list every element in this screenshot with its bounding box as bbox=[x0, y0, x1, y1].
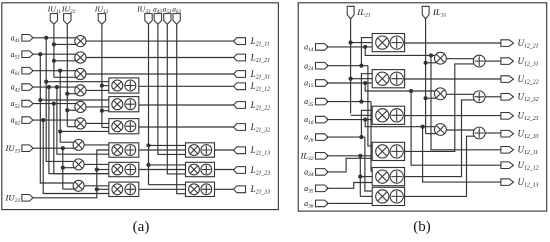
adder in right PE box row8 bbox=[201, 164, 212, 175]
right PE box row7 (multiply-add) bbox=[186, 143, 215, 157]
input port a25 (left, panel b) bbox=[316, 98, 329, 105]
wire multiplier to adder row U12_31 bbox=[446, 58, 474, 60]
input port a15 (left, panel b) bbox=[316, 80, 329, 87]
wire IL32 bend into PE box6 bbox=[360, 195, 372, 197]
wire IU12 bend into row6 PE box bbox=[102, 127, 109, 129]
output port L21_13 (panel a) bbox=[234, 147, 246, 154]
input port a16 (left, panel b) bbox=[316, 116, 329, 123]
output port U12_11 (panel b) bbox=[501, 147, 514, 154]
multiplier in right PE box row7 bbox=[189, 145, 200, 156]
output port U12_33 (panel b) bbox=[501, 130, 514, 137]
junction aux row4 bbox=[47, 85, 51, 89]
junction a51 row5 branch bbox=[38, 98, 42, 102]
wire row8 right PE box output to port L21_23 bbox=[215, 169, 234, 171]
input port IL32 (left, panel b) bbox=[316, 153, 329, 160]
net IU11 vertical wire bbox=[53, 24, 55, 77]
adder in PE box6 bbox=[390, 190, 403, 203]
junction IU12-row4 bbox=[100, 84, 104, 88]
PE box row6 (multiply-add) bbox=[109, 119, 139, 134]
wire IL31 branch to multiplier row U12_32 bbox=[426, 97, 436, 99]
input port a26 (left, panel b) bbox=[316, 134, 329, 141]
wire IU33 bend into row9 right PE box bbox=[149, 184, 186, 186]
wire row9 left PE box output into right PE box bbox=[139, 188, 186, 190]
wire IL31 bend to multiplier row U12_33 bbox=[426, 133, 436, 135]
wire a51 branch into row5 PE box bbox=[40, 99, 109, 101]
wire IU22 branch to row4 multiplier bbox=[67, 93, 76, 95]
input port a53 (top, panel a) bbox=[164, 14, 171, 25]
wire a24 riser down into PE box4 top bbox=[368, 66, 372, 146]
junction a14 tap for U12_11 bbox=[429, 53, 433, 57]
adder in PE box1 bbox=[390, 36, 403, 49]
net a42 vertical wire to row7 PE box bbox=[57, 87, 109, 154]
wire IL32 branch into PE box5 bbox=[360, 176, 372, 178]
junction a25 riser bbox=[359, 100, 363, 104]
wire IU22 bend into row6 multiplier bbox=[67, 126, 76, 128]
multiplier (single) row U12_32 bbox=[435, 88, 447, 100]
junction a51 row2 bbox=[38, 52, 42, 56]
output port U12_32 (panel b) bbox=[501, 94, 514, 101]
output port L21_11 (panel a) bbox=[234, 38, 246, 45]
left PE box row7 (multiply-add) bbox=[109, 143, 139, 157]
wire IU12 branch into row5 PE box bbox=[102, 110, 109, 112]
junction IL21-box1 bbox=[349, 41, 353, 45]
junction IL21-box2 bbox=[349, 77, 353, 81]
right PE box row9 (multiply-add) bbox=[186, 182, 215, 196]
junction a61 row3 bbox=[58, 69, 62, 73]
input port IU22 (top, panel a) bbox=[64, 14, 71, 25]
wire IU33 branch into row7 right PE box bbox=[149, 144, 186, 146]
output port U12_23 (panel b) bbox=[501, 113, 514, 120]
left PE box row9 (multiply-add) bbox=[109, 182, 139, 196]
net IU33 vertical wire bbox=[148, 24, 150, 185]
junction a16 tap for U12_13 bbox=[421, 125, 425, 129]
multiplier in left PE box row7 bbox=[112, 145, 123, 156]
wire row8 multiplier output into left PE box bbox=[84, 163, 109, 165]
net IL32 wire into PE box4 bbox=[327, 155, 373, 157]
net IU13 vertical branch to rows 8-9 bbox=[62, 148, 64, 189]
wire row a61 from port to multiplier bbox=[33, 70, 77, 72]
junction IL32 riser bbox=[358, 154, 362, 158]
adder in PE box row5 bbox=[125, 99, 136, 110]
PE box row5 (multiply-add) bbox=[109, 97, 139, 112]
wire IL21 branch into PE box1 bbox=[351, 42, 373, 44]
net a62 vertical wire to row9 PE box bbox=[43, 120, 109, 193]
input port a36 (left, panel b) bbox=[316, 200, 329, 207]
input port IU33 (top, panel a) bbox=[145, 14, 152, 25]
multiplier (single) row7 bbox=[73, 139, 84, 150]
junction IU11-row1 bbox=[52, 42, 56, 46]
wire PE box3 output to port U12_23 bbox=[405, 115, 501, 117]
net a51 vertical wire (to row5 box, ends at row9 multiplier) bbox=[40, 54, 73, 183]
multiplier (single) row3 bbox=[75, 68, 86, 79]
wire IU11 branch to row1 multiplier bbox=[54, 43, 77, 45]
wire row7 left PE box output into right PE box bbox=[139, 149, 186, 151]
PE box4 (multiply-add, panel b) bbox=[372, 142, 404, 160]
net a61 vertical wire (to row6 box, ends at row7 multiplier) bbox=[60, 71, 73, 143]
adder in right PE box row7 bbox=[201, 145, 212, 156]
multiplier in PE box6 bbox=[376, 190, 389, 203]
wire adder output to port U12_31 bbox=[485, 60, 501, 62]
input port a62 (left, panel a) bbox=[22, 117, 33, 124]
wire a16 riser down to multiplier U12_33 top input bbox=[365, 120, 435, 127]
wire multiplier to adder row U12_32 bbox=[446, 93, 474, 95]
wire IU11 branch to row2 multiplier bbox=[54, 60, 77, 62]
wire a61 branch into row6 PE box bbox=[60, 130, 109, 132]
multiplier (single) row U12_31 bbox=[435, 52, 447, 64]
wire row a62 from port to multiplier bbox=[33, 119, 77, 121]
junction a15 tap for U12_12 bbox=[409, 89, 413, 93]
multiplier in right PE box row9 bbox=[189, 184, 200, 195]
wire IU13 branch to row8 multiplier bbox=[63, 167, 75, 169]
wire PE box6 output riser up to adder U12_33 bbox=[405, 136, 475, 196]
multiplier in PE box row6 bbox=[112, 121, 123, 132]
multiplier in PE box row5 bbox=[112, 99, 123, 110]
multiplier (single) row1 bbox=[75, 36, 86, 47]
net a34 wire riser into PE box4 bottom bbox=[327, 158, 373, 172]
multiplier in PE box row4 bbox=[112, 80, 123, 91]
output port U12_22 (panel b) bbox=[501, 76, 514, 83]
junction a24 riser bbox=[359, 64, 363, 68]
multiplier in PE box1 bbox=[376, 36, 389, 49]
wire a25 riser down into PE box5 top bbox=[371, 102, 372, 172]
wire a26 riser down into PE box6 top bbox=[365, 137, 372, 191]
wire riser from a16 line down to port U12_13 bbox=[423, 127, 501, 182]
net a35 wire riser into PE box5 bottom bbox=[327, 183, 373, 189]
junction IU33-row7 bbox=[146, 143, 150, 147]
PE box6 (multiply-add, panel b) bbox=[372, 187, 404, 205]
junction IU13 row8 bbox=[61, 166, 65, 170]
wire row8 left PE box output into right PE box bbox=[139, 169, 186, 171]
junction IU22-row5 bbox=[65, 108, 69, 112]
wire row9 multiplier output into left PE box bbox=[84, 185, 109, 187]
wire row a42 from port to multiplier bbox=[33, 86, 77, 88]
input port a35 (left, panel b) bbox=[316, 185, 329, 192]
input port a51 (left, panel a) bbox=[22, 51, 33, 58]
wire IU23 branch into row8 PE box bbox=[97, 169, 109, 171]
input port a42 (left, panel a) bbox=[22, 84, 33, 91]
junction IU12-row5 bbox=[100, 109, 104, 113]
input port a34 (left, panel b) bbox=[316, 169, 329, 176]
left PE box row8 (multiply-add) bbox=[109, 162, 139, 176]
input port IU12 (top, panel a) bbox=[98, 14, 105, 25]
adder in left PE box row8 bbox=[125, 164, 136, 175]
output port L21_12 (panel a) bbox=[234, 83, 246, 90]
wire PE box row6 output to port L21_32 bbox=[139, 126, 234, 128]
right PE box row8 (multiply-add) bbox=[186, 162, 215, 176]
input port a61 (left, panel a) bbox=[22, 67, 33, 74]
multiplier in PE box5 bbox=[376, 170, 389, 183]
adder in left PE box row7 bbox=[125, 145, 136, 156]
wire IU33 branch into row8 right PE box bbox=[149, 164, 186, 166]
multiplier (single) row6 bbox=[75, 118, 86, 129]
junction IU23 row8 bbox=[95, 167, 99, 171]
output port L21_21 (panel a) bbox=[234, 54, 246, 61]
svg-text:(a): (a) bbox=[133, 219, 150, 235]
PE box1 (multiply-add, panel b) bbox=[372, 34, 404, 52]
input port a63 (top, panel a) bbox=[173, 14, 180, 25]
net a63 vertical wire into row9 right PE box bbox=[177, 24, 186, 194]
junction IU33-row8 bbox=[146, 163, 150, 167]
wire multiplier row1 output to port L21_11 bbox=[86, 40, 234, 42]
output port U12_21 (panel b) bbox=[501, 40, 514, 47]
junction a52 row5 bbox=[52, 102, 56, 106]
net IL21 vertical wire bbox=[350, 19, 352, 113]
net a43 vertical wire into row7 right PE box bbox=[158, 24, 186, 155]
adder (single) row U12_32 bbox=[473, 91, 485, 103]
multiplier in right PE box row8 bbox=[189, 164, 200, 175]
adder (single) row U12_31 bbox=[473, 55, 485, 67]
junction a62 row6 bbox=[41, 118, 45, 122]
wire IL31 branch to multiplier row U12_31 bbox=[426, 62, 436, 64]
wire IL32 riser down feeding PE boxes 5-6 bbox=[359, 156, 361, 197]
junction a41 row4 branch bbox=[44, 80, 48, 84]
wire multiplier row5 output into PE box bbox=[86, 106, 109, 108]
multiplier in PE box4 bbox=[376, 145, 389, 158]
junction IL32-box5 bbox=[358, 175, 362, 179]
wire IL21 bend into PE box3 bbox=[351, 114, 373, 116]
wire PE box row4 output to port L21_12 bbox=[139, 85, 234, 87]
wire multiplier to adder row U12_33 bbox=[446, 129, 474, 131]
output port L21_33 (panel a) bbox=[234, 186, 246, 193]
net IU13 wire from port to row7 multiplier bbox=[33, 147, 75, 149]
adder in left PE box row9 bbox=[125, 184, 136, 195]
net a15 wire into PE box2 bottom bbox=[327, 82, 373, 84]
junction a41 row1 bbox=[44, 36, 48, 40]
input port IU13 (left, panel a) bbox=[22, 145, 33, 152]
input port a14 (left, panel b) bbox=[316, 44, 329, 51]
junction a26 riser bbox=[359, 135, 363, 139]
input port IU23 (left, panel a) bbox=[22, 195, 33, 202]
multiplier in PE box2 bbox=[376, 72, 389, 85]
wire IU13 bend into row9 multiplier bbox=[63, 188, 75, 190]
wire IU23 branch into row9 PE box bbox=[97, 188, 109, 190]
multiplier (single) row U12_33 bbox=[435, 124, 447, 136]
wire a15 riser down to multiplier U12_32 top input bbox=[365, 83, 435, 91]
PE box5 (multiply-add, panel b) bbox=[372, 168, 404, 186]
multiplier (single) row9 bbox=[73, 180, 84, 191]
net a53 vertical wire into row8 right PE box bbox=[167, 24, 185, 174]
multiplier (single) row4 bbox=[75, 85, 86, 96]
wire PE box row5 output to port L21_22 bbox=[139, 104, 234, 106]
junction IU11-row2 bbox=[52, 59, 56, 63]
adder in PE box2 bbox=[390, 72, 403, 85]
junction IU13 row7 bbox=[61, 146, 65, 150]
junction IL31 row2 bbox=[424, 96, 428, 100]
wire PE box1 output to port U12_21 bbox=[405, 42, 501, 44]
multiplier (single) row2 bbox=[75, 52, 86, 63]
adder in PE box5 bbox=[390, 170, 403, 183]
adder in PE box row6 bbox=[125, 121, 136, 132]
net a52 vertical wire to row8 PE box bbox=[54, 104, 109, 174]
junction a42 row4 bbox=[55, 85, 59, 89]
net IU22 vertical wire bbox=[66, 24, 68, 127]
wire row7 multiplier output into left PE box bbox=[84, 144, 109, 146]
net a14 wire into PE box1 bottom bbox=[327, 46, 373, 48]
wire adder output to port U12_33 bbox=[485, 132, 501, 134]
wire multiplier row6 output into PE box bbox=[86, 122, 109, 124]
net a25 wire with riser up into PE box2 top bbox=[327, 101, 371, 103]
output port L21_23 (panel a) bbox=[234, 167, 246, 174]
junction IU23 row9 bbox=[95, 187, 99, 191]
input port IL21 (top, panel b) bbox=[347, 6, 354, 19]
panel (a) frame bbox=[2, 3, 279, 210]
multiplier (single) row5 bbox=[75, 101, 86, 112]
wire IL21 branch into PE box2 bbox=[351, 78, 373, 80]
wire riser from a14 line down to port U12_11 bbox=[431, 55, 501, 149]
junction a14 branch bbox=[363, 45, 367, 49]
input port IU11 (top, panel a) bbox=[50, 14, 57, 25]
wire adder output to port U12_32 bbox=[485, 96, 501, 98]
wire multiplier row2 output to port L21_21 bbox=[86, 57, 234, 59]
adder in PE box row4 bbox=[125, 80, 136, 91]
adder in right PE box row9 bbox=[201, 184, 212, 195]
wire PE box4 output riser up to adder U12_31 bbox=[405, 64, 475, 151]
output port L21_22 (panel a) bbox=[234, 102, 246, 109]
junction IL31 row1 bbox=[424, 61, 428, 65]
wire auxiliary vertical from row4 to row8 PE box bbox=[49, 87, 109, 174]
output port L21_31 (panel a) bbox=[234, 71, 246, 78]
wire PE box5 output riser up to adder U12_32 bbox=[405, 100, 475, 177]
wire multiplier row3 output to port L21_31 bbox=[86, 73, 234, 75]
multiplier in PE box3 bbox=[376, 109, 389, 122]
adder (single) row U12_33 bbox=[473, 127, 485, 139]
junction IU22-row4 bbox=[65, 92, 69, 96]
net IU23 wire from port, riser feeding left PE boxes rows 7-9 bbox=[33, 150, 109, 198]
multiplier in left PE box row9 bbox=[112, 184, 123, 195]
junction a15 branch bbox=[363, 81, 367, 85]
wire riser from a15 line down to port U12_12 bbox=[411, 91, 501, 165]
PE box2 (multiply-add, panel b) bbox=[372, 70, 404, 88]
output port L21_32 (panel a) bbox=[234, 124, 246, 131]
wire row a41 from port to multiplier bbox=[33, 37, 77, 39]
PE box row4 (multiply-add) bbox=[109, 78, 139, 93]
output port U12_12 (panel b) bbox=[501, 162, 514, 169]
input port a52 (left, panel a) bbox=[22, 100, 33, 107]
wire PE box2 output to port U12_22 bbox=[405, 78, 501, 80]
output port U12_13 (panel b) bbox=[501, 179, 514, 186]
wire row7 right PE box output to port L21_13 bbox=[215, 149, 234, 151]
wire multiplier row4 output into PE box bbox=[86, 89, 109, 91]
junction a61 row6 branch bbox=[58, 129, 62, 133]
net a36 wire into PE box6 bottom bbox=[327, 202, 373, 204]
net a26 wire with riser up into PE box3 top bbox=[327, 136, 365, 138]
wire IU12 branch into row4 PE box bbox=[102, 85, 109, 87]
multiplier in left PE box row8 bbox=[112, 164, 123, 175]
input port a43 (top, panel a) bbox=[154, 14, 161, 25]
panel (b) frame bbox=[298, 3, 547, 211]
wire row a51 from port to multiplier bbox=[33, 53, 77, 55]
net IU12 vertical wire bbox=[101, 24, 103, 128]
net a41 vertical wire (to row4 box, ends at row8 multiplier) bbox=[46, 38, 73, 162]
output port U12_31 (panel b) bbox=[501, 58, 514, 65]
svg-text:(b): (b) bbox=[413, 219, 431, 235]
input port a41 (left, panel a) bbox=[22, 35, 33, 42]
wire row9 right PE box output to port L21_33 bbox=[215, 188, 234, 190]
adder in PE box3 bbox=[390, 109, 403, 122]
PE box3 (multiply-add, panel b) bbox=[372, 106, 404, 124]
junction a16 branch bbox=[363, 118, 367, 122]
net IL31 vertical wire bbox=[425, 19, 427, 133]
net a24 wire with riser up into PE box1 top bbox=[327, 65, 368, 67]
wire a14 riser down to multiplier U12_31 top input bbox=[365, 47, 435, 56]
multiplier (single) row8 bbox=[73, 159, 84, 170]
input port IL31 (top, panel b) bbox=[422, 6, 429, 19]
net a16 wire into PE box3 bottom bbox=[327, 119, 373, 121]
wire row a52 from port to multiplier bbox=[33, 103, 77, 105]
wire a41 branch into row4 PE box bbox=[46, 81, 109, 83]
wire IU22 branch to row5 multiplier bbox=[67, 109, 76, 111]
wire IU11 bend into row3 multiplier bbox=[54, 76, 77, 78]
adder in PE box4 bbox=[390, 145, 403, 158]
input port a24 (left, panel b) bbox=[316, 62, 329, 69]
